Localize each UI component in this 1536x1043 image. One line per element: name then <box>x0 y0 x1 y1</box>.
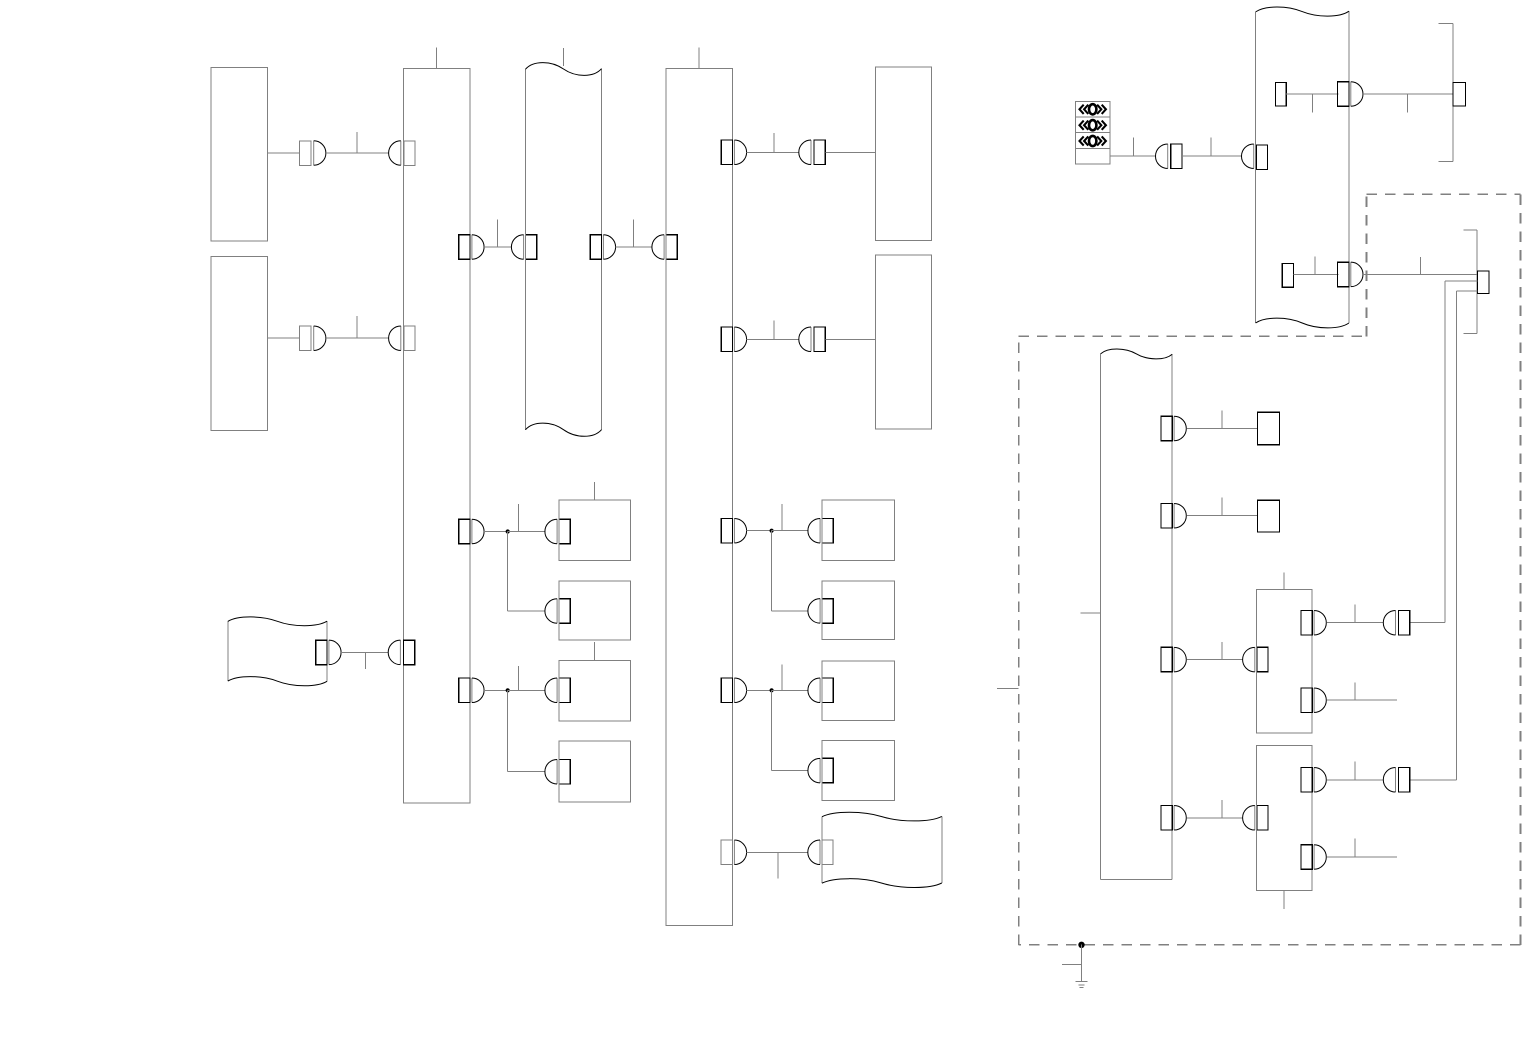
wire A BR2 to J38 <box>1410 281 1478 623</box>
box M2 <box>1257 746 1313 891</box>
wire to ground <box>1081 944 1083 981</box>
wire J27 to J28 <box>747 851 808 853</box>
shield symbol box SH1 <box>1075 101 1110 163</box>
connector J33 on T3 right edge <box>1161 416 1186 441</box>
connector J40 on M2 right edge <box>1301 768 1326 793</box>
dashed boundary <box>1019 194 1521 945</box>
wire J19 to J20 <box>341 651 388 653</box>
stub on S3 top <box>594 642 596 661</box>
connector J20 on bus W1 left edge <box>388 640 415 665</box>
wire J12 to RB2 <box>825 338 875 340</box>
wire label stub <box>773 133 775 152</box>
junction dot <box>770 529 774 533</box>
wire J1 to J2 <box>326 152 389 154</box>
off-page cable T2 <box>1256 7 1349 328</box>
wire label stub <box>777 852 779 878</box>
wire J3 to J4 <box>326 337 389 339</box>
wire junction down to J18 <box>508 690 545 771</box>
wire J35 to J36 <box>1186 659 1243 661</box>
wire junction down to J15 <box>508 532 545 612</box>
connector J17 on S3 left edge <box>545 678 570 703</box>
wire label stub <box>496 220 498 247</box>
box R3 <box>822 661 895 721</box>
connector J38 on M1 right edge <box>1301 610 1326 635</box>
terminal rect on BR2 <box>1478 271 1489 294</box>
wire J24 to junction <box>747 689 772 691</box>
junction dot <box>506 688 510 692</box>
connector J13 on bus W1 right edge <box>459 519 484 544</box>
connector J37 on T3 right edge <box>1161 806 1186 831</box>
wire label stub <box>518 504 520 532</box>
stub on T3 left edge <box>1081 612 1101 614</box>
connector J6 on T1 left edge <box>511 235 536 260</box>
wire junction down to J23 <box>772 531 808 611</box>
wire label stub <box>781 504 783 531</box>
connector J5 on bus W1 right edge <box>459 235 484 260</box>
connector J7 on T1 right edge <box>590 235 615 260</box>
wire label stub <box>1407 94 1409 113</box>
off-page flag BN1 <box>228 617 327 686</box>
box R2 <box>822 581 895 640</box>
wire label stub <box>1221 800 1223 818</box>
junction dot on boundary <box>1078 942 1084 948</box>
off-page cable T3 <box>1101 349 1173 879</box>
connector J16 on bus W1 right edge <box>459 678 484 703</box>
box RB1 <box>876 67 932 241</box>
terminal rect SR1 <box>1276 83 1287 107</box>
wire J10 to RB1 <box>825 151 875 153</box>
wire SR1 to J31 <box>1286 93 1338 95</box>
wire label stub <box>1221 498 1223 516</box>
box S1 <box>559 500 631 561</box>
off-page cable T1 <box>526 63 602 437</box>
wire J16 to junction <box>484 689 508 691</box>
connector J21 on bus W2 right edge <box>721 518 746 543</box>
wire J31 to bracket BR1 <box>1363 93 1453 95</box>
connector J11 on bus W2 right edge <box>721 327 746 352</box>
connector J22 on R1 left edge <box>808 518 833 543</box>
wire J11 to J12 <box>747 338 799 340</box>
wire J33 to SQ1 <box>1186 428 1257 430</box>
stub on bus W2 top <box>698 48 700 69</box>
box M1 <box>1257 590 1313 733</box>
bracket BR2 <box>1463 230 1477 334</box>
wire from J41 <box>1326 699 1397 701</box>
connector J2 on bus W1 <box>389 141 415 166</box>
connector J34 on T3 right edge <box>1161 503 1186 528</box>
wire junction to J14 <box>508 531 546 533</box>
stub on S1 top <box>594 482 596 500</box>
wire B1 to J1 <box>268 152 300 154</box>
connector J38b <box>1383 610 1410 635</box>
connector J27 on bus W2 right edge <box>721 840 746 865</box>
wire J9 to J10 <box>747 151 799 153</box>
connector J10 <box>799 140 826 165</box>
connector J18 on S4 left edge <box>545 759 570 784</box>
wire label stub <box>356 316 358 338</box>
wire J40 to J40b <box>1326 779 1383 781</box>
connector J36 on M1 left edge <box>1243 647 1268 672</box>
connector J25 on R3 left edge <box>808 678 833 703</box>
terminal square SQ2 <box>1257 500 1279 532</box>
stub on bus W1 top <box>436 48 438 69</box>
off-page flag BN2 <box>822 812 942 887</box>
wire label stub <box>773 321 775 340</box>
terminal square SQ1 <box>1257 412 1279 444</box>
wire label stub <box>1419 257 1421 274</box>
wire J32 to bracket BR2 <box>1363 273 1478 275</box>
wire junction to J17 <box>508 689 546 691</box>
connector J28 on BN2 left edge <box>808 840 833 865</box>
connector J24 on bus W2 right edge <box>721 678 746 703</box>
wire label stub <box>633 220 635 247</box>
connector J39 on M2 left edge <box>1243 806 1268 831</box>
stub on T1 top <box>563 48 565 66</box>
box S2 <box>559 581 631 640</box>
terminal rect on BR1 <box>1453 83 1466 107</box>
connector J26 on R4 left edge <box>808 758 833 783</box>
wire J5 to J6 <box>484 246 511 248</box>
box RB2 <box>876 255 932 429</box>
wire J34 to SQ2 <box>1186 515 1257 517</box>
connector J40b <box>1383 768 1410 793</box>
wire SR2 to J32 <box>1294 273 1339 275</box>
wire J38 to J38b <box>1326 622 1383 624</box>
wire J7 to J8 <box>616 246 652 248</box>
wire junction to J22 <box>772 530 809 532</box>
wire from J42 <box>1326 856 1397 858</box>
wire label stub <box>1354 683 1356 701</box>
connector J23 on R2 left edge <box>808 599 833 624</box>
cable bus W1 <box>404 69 471 804</box>
connector J8 on bus W2 left edge <box>652 235 677 260</box>
wire label stub <box>1311 94 1313 113</box>
box R1 <box>822 500 895 561</box>
stub on M2 bottom <box>1283 891 1285 910</box>
cable bus W2 <box>666 69 733 926</box>
connector J1 <box>300 141 326 166</box>
wire label stub <box>1354 605 1356 623</box>
box S4 <box>559 741 631 802</box>
wire label stub <box>1314 256 1316 274</box>
wire label stub <box>1354 761 1356 780</box>
box B1 <box>211 68 268 242</box>
junction dot <box>770 688 774 692</box>
connector J29 <box>1156 144 1183 169</box>
wire SH1 to J29 <box>1110 155 1155 157</box>
wire label stub <box>781 664 783 690</box>
connector J31 on T2 right edge <box>1338 82 1363 107</box>
bracket BR1 <box>1438 24 1453 162</box>
wire label stub <box>1354 839 1356 858</box>
wire label stub <box>1221 410 1223 428</box>
box R4 <box>822 741 895 801</box>
connector J14 on S1 left edge <box>545 519 570 544</box>
wire B BR2 to J40 <box>1410 291 1478 780</box>
connector J12 <box>799 327 826 352</box>
wire label stub <box>518 666 520 690</box>
wire label stub <box>1133 138 1135 157</box>
connector J32 on T2 right edge <box>1338 262 1363 287</box>
wire junction to J25 <box>772 689 809 691</box>
terminal rect SR2 <box>1282 264 1293 288</box>
wire label stub <box>1062 964 1082 966</box>
wire B2 to J3 <box>268 337 300 339</box>
connector J4 on bus W1 <box>389 326 415 351</box>
wire label stub <box>1210 138 1212 157</box>
connector J41 on M1 right edge <box>1301 688 1326 713</box>
stub on M1 top <box>1283 573 1285 590</box>
junction dot <box>506 529 510 533</box>
wire J21 to junction <box>747 530 772 532</box>
wire J29 to J30 <box>1182 155 1241 157</box>
connector J3 <box>300 326 326 351</box>
connector J9 on bus W2 right edge <box>721 140 746 165</box>
wire J37 to J39 <box>1186 817 1243 819</box>
wire junction down to J26 <box>772 690 808 770</box>
wire stub at dashed boundary <box>997 688 1019 690</box>
connector J42 on M2 right edge <box>1301 845 1326 870</box>
box S3 <box>559 661 631 722</box>
connector J35 on T3 right edge <box>1161 647 1186 672</box>
connector J19 on BN1 right edge <box>316 640 341 665</box>
ground <box>1076 981 1088 987</box>
wire label stub <box>1221 642 1223 660</box>
wire label stub <box>356 132 358 153</box>
box B2 <box>211 257 268 431</box>
wire J13 to junction <box>484 531 508 533</box>
connector J15 on S2 left edge <box>545 599 570 624</box>
wire label stub <box>365 652 367 669</box>
connector J30 on T2 left edge <box>1241 144 1267 170</box>
